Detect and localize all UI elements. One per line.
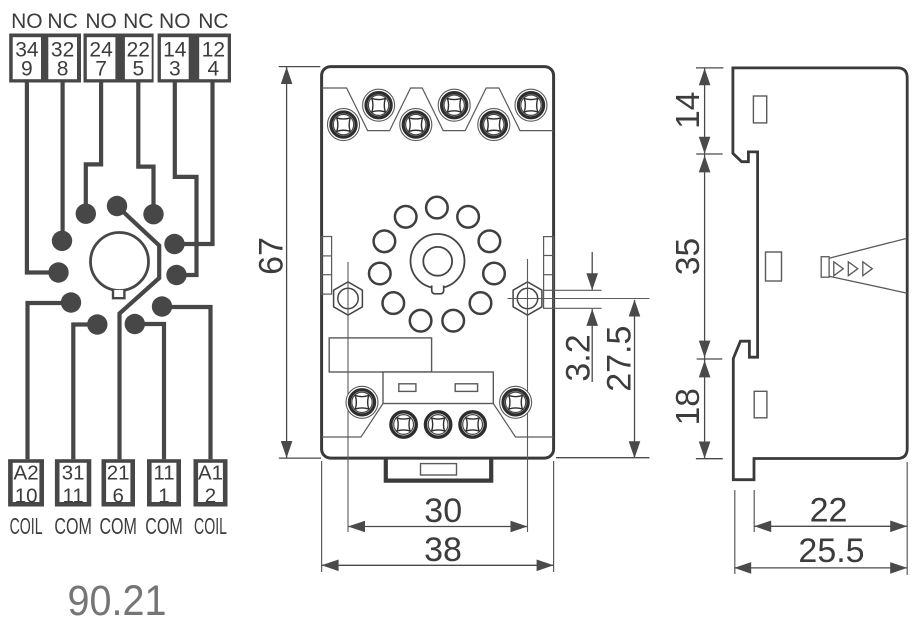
terminal cell 22/5 bbox=[125, 37, 152, 80]
coil keyway tab bbox=[113, 290, 124, 298]
right hex nut bbox=[513, 282, 542, 315]
svg-text:A2: A2 bbox=[14, 462, 39, 485]
terminal cell 24/7 bbox=[87, 37, 116, 80]
bottom screw left bbox=[346, 386, 378, 418]
dimension 27.5 extension bottom bbox=[556, 457, 650, 459]
lever arrow 1 bbox=[834, 262, 844, 276]
dimension 18 line bbox=[704, 359, 706, 459]
terminal screw top 4 bbox=[438, 89, 470, 121]
nut centerline right bbox=[527, 259, 529, 532]
terminal screw top 1 bbox=[328, 109, 360, 141]
relay coil circle bbox=[91, 233, 149, 291]
window 2 bbox=[455, 384, 477, 392]
svg-text:COIL: COIL bbox=[10, 513, 43, 539]
socket pin 12-4 node dot bbox=[164, 234, 184, 254]
terminal block 24/7 + 22/5 bbox=[84, 34, 154, 83]
wire 32/8 to pin 8 bbox=[60, 83, 64, 239]
socket pin 7 dot bbox=[76, 204, 96, 224]
svg-text:3: 3 bbox=[169, 58, 181, 81]
svg-text:1: 1 bbox=[158, 484, 169, 507]
side window middle bbox=[766, 252, 782, 281]
left hex nut bbox=[334, 282, 363, 315]
socket pin 9 dot bbox=[48, 262, 68, 282]
svg-text:NC: NC bbox=[198, 10, 228, 33]
bottom small screw 2 bbox=[425, 412, 450, 437]
svg-text:A1: A1 bbox=[198, 462, 223, 485]
skirt line left bbox=[322, 404, 383, 438]
socket pin 6 dot bbox=[107, 196, 127, 216]
lever arrow 3 bbox=[863, 262, 873, 276]
side extension line 14/35 bbox=[696, 153, 722, 155]
terminal screw top 5 bbox=[478, 109, 510, 141]
side extension foot left bbox=[734, 490, 736, 574]
left side slot bbox=[322, 237, 332, 295]
svg-text:NO: NO bbox=[11, 10, 43, 33]
svg-text:22: 22 bbox=[810, 492, 848, 530]
svg-text:2: 2 bbox=[205, 484, 216, 507]
window 1 bbox=[399, 384, 416, 392]
svg-text:90.21: 90.21 bbox=[68, 577, 167, 624]
svg-text:9: 9 bbox=[21, 58, 33, 81]
dimension 3.2 line lower bbox=[591, 309, 593, 382]
front view body outline bbox=[322, 67, 554, 459]
wire 24/7 to pin 7 bbox=[86, 83, 101, 212]
dimension 38 line bbox=[322, 564, 554, 566]
dimension 14 line bbox=[704, 68, 706, 154]
terminal block 14/3 + 12/4 bbox=[158, 34, 231, 83]
wire 14/3 to pin 3 bbox=[175, 83, 197, 276]
right side slot bbox=[544, 237, 554, 309]
terminal screw top 2 bbox=[363, 89, 395, 121]
svg-text:21: 21 bbox=[107, 462, 130, 485]
svg-text:11: 11 bbox=[62, 484, 83, 507]
dimension 3.2 extension lines bbox=[554, 289, 602, 291]
bottom screw right bbox=[500, 386, 532, 418]
svg-text:27.5: 27.5 bbox=[601, 326, 639, 392]
side view profile bbox=[733, 68, 907, 480]
dimension 3.2 line upper bbox=[591, 252, 593, 290]
svg-text:NC: NC bbox=[47, 10, 77, 33]
side window top bbox=[753, 96, 766, 123]
bottom small screw 3 bbox=[460, 412, 485, 437]
wire 31/11 to pin 11 bbox=[73, 325, 94, 460]
terminal 11/1 bbox=[147, 459, 181, 507]
terminal screw top 3 bbox=[400, 109, 432, 141]
tab inner window bbox=[421, 464, 457, 475]
wire pin 6 to 21/6 bbox=[117, 206, 159, 459]
svg-text:COM: COM bbox=[145, 513, 183, 539]
socket pin 4 dot bbox=[143, 204, 163, 224]
side extension right edge bbox=[906, 462, 908, 575]
svg-text:5: 5 bbox=[132, 58, 144, 81]
socket pin 10 dot bbox=[61, 292, 81, 312]
terminal screw top 6 bbox=[515, 89, 547, 121]
side window bottom bbox=[754, 391, 767, 418]
center keyway tab bbox=[432, 286, 444, 294]
window plate bbox=[383, 372, 493, 404]
dimension 67 line bbox=[286, 67, 288, 458]
label plate bbox=[329, 338, 431, 372]
dimension 67 extension top bbox=[279, 66, 321, 68]
svg-text:6: 6 bbox=[112, 484, 123, 507]
socket pin 11 dot bbox=[87, 314, 107, 334]
wire 12/4 to pin 4 bbox=[177, 83, 213, 245]
bottom small screw 1 bbox=[391, 412, 416, 437]
center bush inner bbox=[423, 247, 452, 276]
side extension foot right bbox=[753, 490, 755, 532]
svg-text:3.2: 3.2 bbox=[560, 334, 598, 381]
svg-text:18: 18 bbox=[670, 388, 707, 425]
side extension line top bbox=[696, 67, 723, 69]
svg-text:38: 38 bbox=[424, 531, 462, 569]
center bush outer bbox=[411, 234, 465, 288]
terminal cell 12/4 bbox=[199, 37, 228, 80]
svg-text:COM: COM bbox=[99, 513, 137, 539]
svg-text:COIL: COIL bbox=[194, 513, 227, 539]
terminal cell 32/8 bbox=[48, 37, 77, 80]
svg-text:25.5: 25.5 bbox=[798, 532, 864, 570]
svg-text:30: 30 bbox=[424, 492, 462, 530]
svg-text:10: 10 bbox=[15, 484, 38, 507]
top terminal separator zigzag bbox=[322, 88, 554, 131]
terminal block 34/9 + 32/8 bbox=[9, 34, 81, 83]
wire 34/9 to pin 9 bbox=[27, 83, 56, 273]
svg-text:NO: NO bbox=[85, 10, 117, 33]
socket pin 3 dot bbox=[166, 265, 186, 285]
svg-text:NO: NO bbox=[159, 10, 191, 33]
svg-text:67: 67 bbox=[253, 237, 291, 275]
side extension line bottom bbox=[696, 458, 723, 460]
dimension 38 extension lines bbox=[321, 461, 323, 572]
nut centerline left bbox=[347, 262, 349, 532]
svg-text:7: 7 bbox=[95, 58, 107, 81]
dimension 25.5 line bbox=[734, 567, 907, 569]
svg-text:8: 8 bbox=[57, 58, 69, 81]
release lever wedge bbox=[829, 238, 907, 293]
wire 22/5 to pin 5 bbox=[138, 83, 153, 213]
dimension 35 line bbox=[704, 154, 706, 359]
terminal 31/11 bbox=[55, 459, 91, 507]
svg-text:35: 35 bbox=[670, 238, 707, 275]
svg-text:NC: NC bbox=[123, 10, 153, 33]
skirt line right bbox=[493, 404, 553, 438]
socket pin 8 dot bbox=[52, 231, 72, 251]
mounting tab bracket bbox=[386, 457, 491, 481]
wire A1/2 to pin 2 bbox=[165, 307, 211, 459]
terminal cell 34/9 bbox=[13, 37, 41, 80]
svg-text:COM: COM bbox=[54, 513, 92, 539]
terminal 21/6 bbox=[102, 459, 136, 507]
dimension 67 extension bottom bbox=[279, 457, 321, 459]
svg-text:14: 14 bbox=[670, 92, 707, 129]
wire A2/10 to pin 10 bbox=[28, 303, 69, 459]
terminal A2/10 bbox=[8, 459, 44, 507]
terminal A1/2 bbox=[194, 459, 228, 507]
dimension 22 line bbox=[754, 525, 907, 527]
dimension 27.5 line bbox=[634, 300, 636, 458]
wire 11/1 to pin 1 bbox=[137, 324, 164, 459]
side extension line 35/18 bbox=[697, 358, 723, 360]
svg-text:31: 31 bbox=[62, 462, 85, 485]
relay pin holes ring bbox=[369, 197, 505, 332]
dimension 30 line bbox=[348, 526, 528, 528]
socket pin 1 dot bbox=[125, 314, 145, 334]
svg-text:11: 11 bbox=[153, 462, 174, 485]
socket pin 2 dot bbox=[152, 296, 172, 316]
lever arrow 2 bbox=[848, 262, 858, 276]
svg-text:4: 4 bbox=[208, 58, 220, 81]
terminal cell 14/3 bbox=[161, 37, 189, 80]
